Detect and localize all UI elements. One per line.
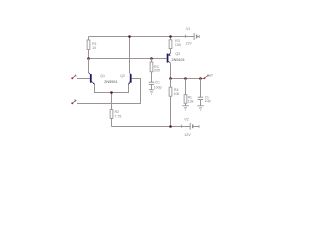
resistor R4: [170, 79, 172, 88]
resistor RL: [185, 79, 187, 95]
wire output node horizontal: [171, 78, 205, 80]
svg-text:13k: 13k: [188, 100, 194, 104]
svg-text:CC: CC: [155, 81, 161, 85]
wire R2 bottom lead: [111, 118, 113, 126]
svg-text:10k: 10k: [174, 92, 180, 96]
ground below CC: [149, 90, 154, 94]
svg-text:100p: 100p: [154, 85, 162, 89]
junction CL at output wire: [199, 77, 202, 80]
svg-text:10p: 10p: [205, 99, 211, 103]
junction emitter tail: [110, 91, 113, 94]
svg-text:Q1: Q1: [100, 74, 105, 78]
transistor Q1 2N5551: [89, 59, 95, 85]
resistor R3: [170, 37, 172, 40]
resistor R2: [110, 110, 113, 119]
node M junction: [87, 57, 90, 60]
svg-text:7.75: 7.75: [114, 115, 121, 119]
wire bottom rail: [112, 126, 191, 128]
input port A: [71, 74, 76, 80]
svg-text:V1: V1: [186, 27, 190, 31]
junction RL at output wire: [184, 77, 187, 80]
wire Q2 base to input B: [77, 79, 141, 104]
transistor Q3 2N5401 (PNP): [167, 53, 171, 79]
junction Q3 collector / output node: [169, 77, 172, 80]
ground below CL: [197, 106, 203, 110]
output port arrow: [203, 73, 213, 79]
junction RC at node M wire: [150, 57, 153, 60]
svg-text:Q2: Q2: [120, 74, 125, 78]
svg-text:12V: 12V: [184, 133, 191, 137]
battery V1: [184, 27, 199, 46]
junction R3 at top rail: [169, 35, 172, 38]
wire emitter tail: [95, 84, 129, 93]
svg-text:200: 200: [154, 68, 160, 72]
transistor Q2 2N5551 (mirrored): [128, 37, 131, 85]
input port B: [71, 99, 76, 105]
svg-text:100: 100: [175, 43, 181, 47]
battery V2: [180, 117, 199, 137]
resistor RC: [151, 59, 153, 63]
junction R4 at bottom rail: [169, 125, 172, 128]
svg-text:10: 10: [92, 46, 96, 50]
junction Q2 collector at top rail: [128, 35, 131, 38]
svg-text:2N5401: 2N5401: [172, 58, 185, 62]
capacitor CL: [200, 79, 202, 98]
wire node M horizontal (R1 bottom to Q3 base): [89, 58, 167, 60]
wire top rail +12V: [89, 36, 195, 38]
svg-text:2N5551: 2N5551: [104, 80, 117, 84]
wire tail node down to R2: [111, 93, 113, 110]
ground below RL: [182, 106, 188, 110]
svg-text:OUT: OUT: [207, 73, 213, 77]
svg-text:R2: R2: [115, 110, 120, 114]
capacitor CC: [149, 81, 154, 83]
svg-text:V2: V2: [184, 117, 188, 121]
svg-text:A: A: [74, 74, 76, 78]
svg-text:Q3: Q3: [175, 52, 180, 56]
svg-text:12V: 12V: [185, 42, 192, 46]
svg-text:B: B: [74, 99, 76, 103]
resistor R1: [88, 37, 90, 41]
wire input A to Q1 base: [77, 78, 90, 80]
